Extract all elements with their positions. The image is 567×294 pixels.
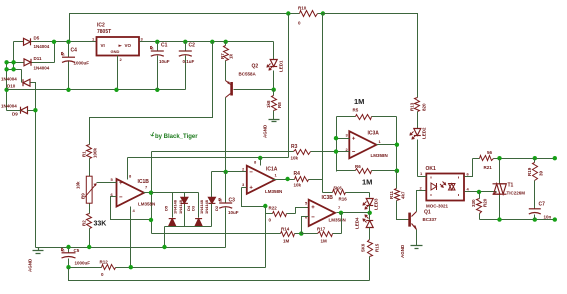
svg-text:7805T: 7805T [97, 29, 111, 35]
svg-text:by Black_Tiger: by Black_Tiger [155, 134, 198, 140]
svg-text:R4: R4 [294, 171, 301, 177]
svg-text:LM358N: LM358N [138, 202, 155, 207]
svg-text:1N4004: 1N4004 [34, 44, 50, 49]
svg-text:C7: C7 [539, 202, 546, 208]
op-amp IC1A [247, 166, 275, 194]
svg-text:R14: R14 [281, 227, 290, 232]
svg-text:10uF: 10uF [228, 210, 239, 215]
svg-text:1N4004: 1N4004 [1, 77, 17, 82]
node AC rail B [13, 42, 15, 70]
svg-text:IC1B: IC1B [138, 179, 150, 185]
node R22/feedback junction [263, 204, 267, 208]
svg-text:1N4148: 1N4148 [204, 199, 209, 214]
capacitor C2 [185, 42, 187, 90]
LED LED3 [366, 199, 373, 206]
svg-text:LED2: LED2 [422, 127, 427, 139]
wire V+ rail y158 [128, 157, 289, 159]
svg-text:GND: GND [111, 49, 120, 54]
wire D11 row [7, 42, 55, 63]
wire R9 wiper [85, 184, 97, 197]
resistor R13 [415, 98, 420, 112]
svg-text:56: 56 [487, 150, 493, 155]
svg-text:820: 820 [422, 103, 427, 111]
wire R14 row [152, 233, 302, 235]
svg-text:MOC-3021: MOC-3021 [426, 204, 449, 209]
resistor R19 [534, 159, 536, 163]
svg-text:5K6: 5K6 [361, 243, 366, 252]
wire R5 feedback loop [337, 117, 397, 172]
svg-text:33K: 33K [94, 221, 107, 228]
wire IC3A inputs [337, 139, 350, 152]
svg-text:R15: R15 [375, 243, 380, 252]
svg-text:1N4004: 1N4004 [1, 104, 17, 109]
svg-text:R8: R8 [277, 102, 282, 108]
svg-text:LM358N: LM358N [329, 218, 346, 223]
wire IC3A output [377, 117, 397, 171]
svg-text:R13: R13 [410, 102, 415, 111]
wire GND rail y90 [7, 56, 186, 90]
wire VCC drop2 to R4/R16 [322, 14, 324, 193]
svg-text:1N4004: 1N4004 [34, 66, 50, 71]
svg-text:C1: C1 [161, 43, 168, 49]
resistor R12 [102, 265, 116, 270]
svg-text:T1: T1 [508, 183, 514, 189]
svg-text:1M: 1M [362, 178, 372, 187]
diode D4 cluster [184, 193, 186, 227]
LED LED1 [273, 42, 275, 90]
diode D10 [23, 79, 30, 86]
svg-text:BC337: BC337 [423, 217, 438, 222]
resistor R15 [368, 240, 373, 257]
svg-text:1M: 1M [354, 97, 364, 106]
transistor Q2 [230, 82, 233, 96]
svg-text:IC3B: IC3B [322, 195, 334, 201]
wire Q2 collector down [225, 98, 227, 172]
wire down to bottom net [265, 207, 267, 268]
svg-text:R22: R22 [269, 206, 278, 211]
wire Q1 collector to OK1 pin2 [417, 191, 427, 212]
wire diode cluster bottom row [165, 227, 212, 248]
svg-text:R11: R11 [389, 190, 394, 199]
wire diode cluster top row [152, 192, 199, 194]
svg-text:LED4: LED4 [355, 217, 360, 229]
wire VI rail y42 [14, 41, 97, 43]
diode D9 [21, 107, 28, 114]
capacitor C5 [68, 248, 70, 268]
capacitor C1 [157, 42, 159, 90]
diode D11 [24, 59, 31, 66]
ground AGND under Q1 [411, 246, 423, 249]
svg-text:Q2: Q2 [252, 64, 259, 70]
wire OK1 pin1 [418, 176, 427, 178]
potentiometer R9 [89, 159, 91, 214]
wire Q1 emitter to ground [416, 230, 418, 246]
IC2 7805 regulator [97, 37, 140, 56]
resistor R6 [337, 170, 397, 172]
svg-text:BC558A: BC558A [239, 72, 257, 77]
svg-text:100k: 100k [93, 147, 98, 158]
svg-text:OK1: OK1 [426, 166, 437, 172]
svg-text:C2: C2 [189, 43, 196, 49]
svg-text:10k: 10k [76, 181, 81, 189]
wire VCC jog at 288 [288, 152, 290, 158]
ground AGND left [33, 248, 44, 254]
resistor R17 feedback [302, 213, 342, 234]
resistor R7 [225, 42, 227, 81]
capacitor C7 [529, 208, 541, 210]
wire VCC drop to op-amp rail [288, 14, 290, 152]
wire IC1A out row R4 [273, 179, 323, 181]
svg-text:R19: R19 [527, 167, 532, 176]
capacitor C4 [68, 42, 70, 90]
svg-text:R9: R9 [81, 193, 86, 199]
wire IC1B output net [151, 152, 153, 234]
wire bottom net y267 [69, 267, 266, 269]
triac T1 [499, 159, 501, 220]
svg-text:D9: D9 [12, 112, 18, 117]
resistor R16 [333, 190, 346, 195]
resistor R14 [281, 232, 295, 237]
svg-text:AGND: AGND [400, 244, 405, 258]
diode D5 [24, 38, 31, 45]
wire IC1A in- feedback [242, 188, 266, 207]
diode D3 cluster [198, 193, 200, 218]
svg-text:D5: D5 [34, 36, 40, 41]
svg-text:1k8: 1k8 [266, 100, 271, 108]
svg-text:R2: R2 [82, 220, 87, 226]
svg-text:D11: D11 [34, 56, 43, 61]
resistor R22 [266, 207, 309, 214]
svg-text:IC3A: IC3A [368, 131, 380, 137]
resistor R8 [273, 90, 275, 120]
svg-text:R16: R16 [339, 197, 348, 202]
wire D10 anode to D9 [31, 83, 36, 111]
svg-text:R1: R1 [82, 151, 87, 157]
resistor R2 [87, 214, 92, 229]
optocoupler OK1 MOC3021 [426, 174, 464, 201]
svg-text:D2: D2 [214, 205, 219, 211]
svg-text:VI: VI [101, 43, 105, 48]
svg-text:R17: R17 [317, 227, 326, 232]
wire IC3B in- stub [302, 217, 309, 234]
svg-text:R5: R5 [353, 108, 359, 113]
svg-text:5K6: 5K6 [334, 186, 343, 191]
resistor R21 [473, 158, 500, 160]
wire bottom rail y280 [69, 268, 370, 281]
svg-text:1000uF: 1000uF [74, 61, 90, 66]
svg-text:R20: R20 [483, 198, 488, 207]
junction dots bridge [52, 40, 56, 44]
svg-text:10k: 10k [294, 183, 302, 188]
op-amp IC3A [349, 131, 376, 158]
resistor R11 [395, 169, 399, 173]
wire OK1 pin6 to R21 [465, 159, 473, 177]
text by Black_Tiger [151, 132, 154, 136]
svg-text:C3: C3 [229, 198, 236, 204]
wire IC3B output [337, 212, 370, 214]
svg-text:R12: R12 [100, 260, 109, 265]
wire R3 row [152, 151, 337, 153]
wire IC1B V+ stub [127, 158, 129, 180]
svg-text:D3: D3 [191, 205, 196, 211]
wire VO rail [140, 41, 274, 43]
resistor R5 [356, 115, 372, 120]
op-amp IC1B [117, 179, 145, 207]
resistor R1 [87, 145, 92, 159]
svg-text:LED1: LED1 [279, 60, 284, 72]
wire bottom rail right [480, 219, 555, 221]
resistor R3 [294, 150, 311, 155]
wire Q2 base [234, 89, 274, 91]
svg-text:C5: C5 [74, 248, 80, 253]
svg-text:D10: D10 [7, 84, 16, 89]
transistor Q1 [408, 213, 411, 227]
svg-text:TIC226M: TIC226M [507, 191, 526, 196]
resistor R10 [289, 13, 323, 15]
wire OK1 pin4 to gate [465, 191, 497, 193]
wire IC2 GND stub [117, 56, 119, 90]
wire +5V feed to divider [90, 42, 213, 145]
wire D2 top stub [211, 172, 213, 198]
resistor R4 [295, 177, 309, 182]
svg-text:AGND: AGND [28, 258, 33, 272]
diode D2 cluster [208, 197, 215, 203]
svg-text:10uF: 10uF [159, 59, 170, 64]
op-amp IC3B [309, 200, 335, 226]
svg-text:39: 39 [539, 170, 544, 176]
svg-text:C4: C4 [71, 48, 78, 54]
wire IC1A V+ stub [260, 158, 262, 166]
resistor R20 [479, 192, 481, 220]
svg-text:10n: 10n [544, 215, 552, 220]
node AC rail A [6, 63, 8, 111]
svg-text:R10: R10 [298, 6, 307, 11]
svg-text:LM358N: LM358N [371, 153, 388, 158]
svg-text:LM358N: LM358N [265, 189, 282, 194]
diode D5b cluster [172, 193, 174, 218]
wire D9 row [7, 110, 36, 112]
svg-text:0.1uF: 0.1uF [183, 59, 195, 64]
capacitor C3 [225, 172, 227, 248]
LED LED4 [369, 213, 371, 220]
svg-text:10k: 10k [291, 156, 299, 161]
svg-text:Q1: Q1 [424, 210, 431, 216]
svg-text:1k: 1k [229, 53, 234, 59]
wire IC1B out [144, 192, 152, 194]
LED LED2 [414, 129, 421, 136]
svg-text:R21: R21 [484, 165, 493, 170]
svg-text:R7: R7 [220, 53, 225, 59]
svg-text:R3: R3 [291, 144, 298, 150]
svg-text:4k7: 4k7 [401, 191, 406, 199]
svg-text:1N4148: 1N4148 [178, 199, 183, 214]
wire AGND rail y247 [36, 247, 226, 249]
wire row y69 [7, 70, 22, 83]
svg-text:1M: 1M [283, 239, 290, 244]
svg-text:LED3: LED3 [374, 198, 379, 210]
svg-text:330: 330 [471, 199, 476, 207]
svg-text:1N4148: 1N4148 [173, 199, 178, 214]
wire node IC1A in- row [212, 171, 247, 173]
svg-text:R6: R6 [355, 164, 361, 169]
wire IC1B V- stub [130, 207, 132, 268]
svg-text:D5: D5 [164, 205, 169, 211]
wire to AGND rail left [35, 111, 37, 248]
svg-text:IC2: IC2 [97, 23, 105, 29]
svg-text:1000uF: 1000uF [75, 261, 91, 266]
wire R16 row [323, 193, 370, 198]
ground AGND under R8 [269, 120, 280, 122]
wire VCC rail to R13 column [323, 14, 418, 98]
svg-text:1M: 1M [321, 239, 328, 244]
svg-text:VO: VO [125, 43, 132, 48]
svg-text:AGND: AGND [263, 124, 268, 138]
wire top rail right [500, 158, 555, 160]
wire IC1B in- feedback [111, 197, 151, 220]
wire top +raw rail [70, 14, 289, 42]
